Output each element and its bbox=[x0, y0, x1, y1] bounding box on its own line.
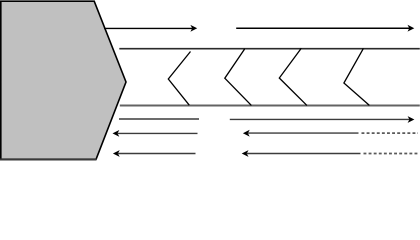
pentagon bottom edge (thicker) bbox=[0, 159, 97, 161]
chevron 4 bbox=[344, 48, 370, 105]
row C left arrow (left-pointing) bbox=[113, 150, 196, 157]
chevron 3 bbox=[279, 48, 307, 105]
top arrow 1 (short right arrow) bbox=[104, 25, 197, 32]
row A right arrow (long right arrow) bbox=[230, 116, 415, 123]
row C right arrow (left-pointing, dashed tail) bbox=[242, 150, 418, 157]
chevron 2 bbox=[225, 49, 252, 106]
bottom channel line bbox=[120, 105, 420, 107]
chevron 1 bbox=[168, 52, 190, 106]
top channel line bbox=[119, 48, 420, 50]
top arrow 2 (long right arrow) bbox=[236, 25, 414, 32]
row A left plain line bbox=[119, 118, 199, 120]
row B right arrow (left-pointing, dashed tail) bbox=[243, 130, 418, 137]
gray pentagon (large left arrow body) bbox=[1, 1, 126, 159]
row B left arrow (left-pointing) bbox=[113, 130, 198, 137]
